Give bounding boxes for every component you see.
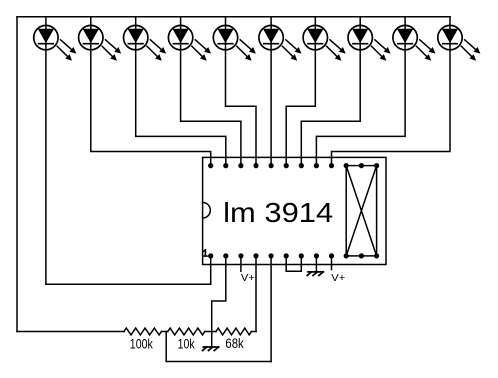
wire: LED D7 to IC top pin: [286, 17, 315, 166]
wire: LED D5 to IC top pin: [226, 17, 257, 166]
pin dot bottom 5: [269, 253, 274, 258]
svg-text:lm 3914: lm 3914: [223, 197, 333, 228]
pin dot bottom 1: [208, 253, 213, 258]
wire: pin8 stub: [315, 256, 317, 271]
wire: LED D9 to IC top pin: [316, 17, 405, 166]
pin dot top 1: [208, 163, 213, 168]
svg-text:V+: V+: [241, 272, 255, 284]
wire: 100k to 10k (node A): [161, 331, 167, 333]
LED D7: [303, 25, 346, 60]
pin dot top 2: [223, 163, 228, 168]
LED D6: [259, 25, 302, 60]
resistor R2 10k: [168, 328, 205, 335]
ground at pin8: [307, 272, 323, 276]
resistor R1 100k: [124, 328, 161, 335]
wire: left rail to 100k: [17, 331, 124, 333]
LED D2: [79, 25, 122, 60]
svg-text:10k: 10k: [178, 335, 196, 351]
pin dot bottom 8: [314, 253, 319, 258]
wire: pin4 down to 68k: [255, 256, 257, 332]
crossed box (unused pin section): [344, 163, 380, 259]
resistor R3 68k: [216, 328, 251, 335]
wire: LED D3 to IC top pin: [136, 17, 226, 166]
pin dot top 7: [299, 163, 304, 168]
svg-text:100k: 100k: [130, 335, 154, 351]
LED D3: [124, 25, 167, 60]
svg-text:68k: 68k: [225, 335, 244, 351]
pin dot bottom 9: [329, 253, 334, 258]
LED D9: [393, 25, 436, 60]
IC notch: [203, 203, 211, 219]
pin dot bottom 3: [238, 253, 243, 258]
LED D5: [213, 25, 256, 60]
ground at 10k/68k node: [203, 347, 219, 351]
pin dot bottom 4: [253, 253, 258, 258]
pin dot top 4: [253, 163, 258, 168]
wire: pin3 stub (V+): [240, 256, 242, 271]
wire: LED D8 to IC top pin: [301, 17, 360, 166]
wire: top anode bus: [17, 16, 450, 18]
wire: LED D4 to IC top pin: [181, 17, 241, 166]
pin dot top 3: [238, 163, 243, 168]
wire: node A down and bottom rail to pin5: [166, 332, 271, 362]
pin dot top 9: [329, 163, 334, 168]
LED D1: [34, 25, 77, 60]
wire: LED D10 to IC top pin: [332, 17, 451, 166]
wire: pin6 stub: [285, 256, 287, 271]
pin dot top 5: [269, 163, 274, 168]
pin dot top 8: [314, 163, 319, 168]
LED D10: [438, 25, 481, 60]
wire: pin6-pin7 bridge: [286, 270, 301, 272]
pin dot bottom 2: [223, 253, 228, 258]
wire: D1 to pin1: [46, 283, 211, 285]
pin dot top 6: [284, 163, 289, 168]
pin 1 marker: [203, 250, 208, 256]
pin dot bottom 6: [284, 253, 289, 258]
wire: left rail from bus down to resistor chain: [16, 17, 18, 332]
wire: LED D2 to IC top pin: [91, 17, 211, 166]
wire: pin5 down to bottom rail: [270, 256, 272, 362]
wire: 10k to 68k (node B): [205, 331, 216, 333]
wire: LED D6 to IC top pin: [270, 17, 272, 166]
op-amp/IC U1 LM3914 body: [203, 157, 386, 264]
LED D4: [168, 25, 211, 60]
LED D8: [348, 25, 391, 60]
pin dot bottom 7: [299, 253, 304, 258]
wire: 68k right end to pin4 column: [251, 331, 256, 333]
wire: pin2 to ground node: [212, 256, 226, 347]
svg-text:V+: V+: [331, 272, 345, 284]
wire: LED D1 cathode down: [45, 17, 47, 285]
wire: pin7 stub: [300, 256, 302, 271]
wire: pin1 stub down: [210, 256, 212, 284]
wire: pin9 stub (V+): [331, 256, 333, 270]
